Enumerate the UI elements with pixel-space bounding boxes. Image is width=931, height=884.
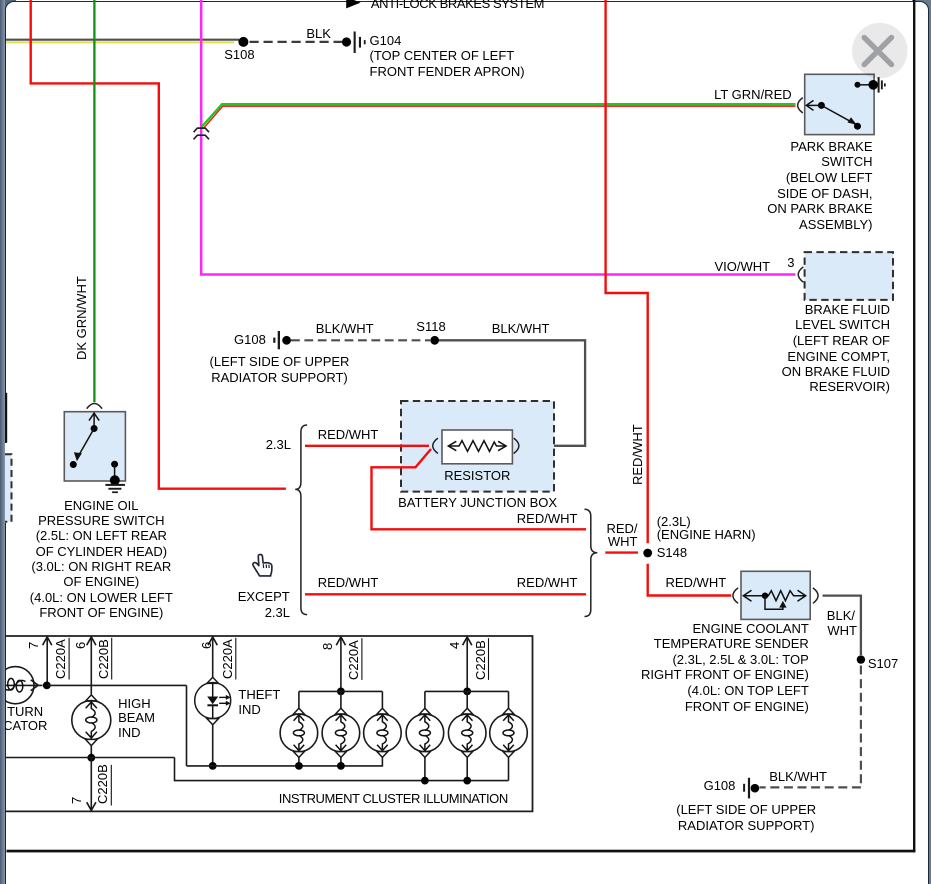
connector arc park brake <box>798 98 803 113</box>
splice S148 <box>643 549 652 558</box>
label brake fluid 3 <box>793 334 890 347</box>
park brake ground dot <box>868 80 878 90</box>
wire BLK/WHT dashed G108 to S118 <box>291 339 430 341</box>
wire pin6 to theft ind <box>212 637 214 677</box>
wire bulb1 to rail1 <box>298 757 300 766</box>
ground G108-bottom short bar <box>743 784 745 792</box>
instrument cluster box <box>6 636 533 811</box>
wire turn indicator to node <box>6 684 43 686</box>
bottom rail 0 from left edge <box>6 757 175 759</box>
label BLK/ stacked near S107 <box>827 609 855 622</box>
cut-off component edge at left <box>5 393 7 443</box>
close button <box>852 23 907 78</box>
wire GRY horizontal to S108 <box>6 39 239 41</box>
wire corner down to bottom rail 1 <box>186 685 188 766</box>
illumination bulb L2 <box>340 691 342 708</box>
ground G108-top short bar <box>273 338 275 343</box>
splice S108 <box>238 37 248 47</box>
wire LT GRN/RED diagonal from hop <box>202 104 796 127</box>
bottom rail step down <box>175 758 509 781</box>
park brake arrow left <box>806 100 813 110</box>
wire bulb2 to rail1 <box>340 757 342 766</box>
label RED/ stacked 2 <box>608 535 638 548</box>
connector label C220A theft <box>221 639 234 679</box>
ground dot G104 <box>342 37 351 46</box>
connector label underline <box>68 638 70 680</box>
engine oil switch arm diagonal with arrowhead <box>78 429 95 458</box>
wire BLK/WHT from coolant sender to S107 <box>823 596 861 655</box>
label BLK <box>306 27 331 40</box>
ground G bar1 park brake <box>878 77 880 93</box>
label park brake 2 <box>821 155 872 168</box>
diagram border bottom <box>7 850 916 853</box>
wire BLK dashed S108 to G104 <box>250 41 343 43</box>
label RED/WHT except right <box>517 576 578 589</box>
label VIO/WHT <box>715 260 771 273</box>
ground G bar2 park brake <box>881 80 883 89</box>
label battery junction box <box>328 495 628 511</box>
engine oil switch arm upper line <box>93 413 95 428</box>
coolant sender wiper dot <box>762 593 768 599</box>
label RED/WHT branch wire <box>517 512 578 525</box>
illumination bulb L1 <box>298 691 300 708</box>
wire pin6 to high beam bulb <box>90 637 92 695</box>
connector label underline <box>361 638 363 680</box>
label instrument cluster illumination <box>279 792 508 805</box>
connector arc resistor right <box>514 438 519 453</box>
white gap over left border above dashed fragment <box>5 443 8 523</box>
label G108 top location <box>130 354 430 385</box>
label brake fluid 2 <box>795 318 890 331</box>
label DK GRN/WHT (rotated) <box>75 276 88 360</box>
label LT GRN/RED <box>714 88 792 101</box>
label brake fluid 4 <box>787 350 890 363</box>
label park brake 6 <box>799 218 872 231</box>
resistor symbol: double arrow + zigzag <box>448 441 456 450</box>
label G104 location 2 <box>370 65 525 78</box>
connector triangle theft top <box>207 677 219 683</box>
wire bulb6 to rail2 end <box>508 757 510 780</box>
brace right group <box>585 509 598 616</box>
junction dot high beam bottom <box>87 754 95 762</box>
connector label C220B pin6 <box>97 639 110 679</box>
connector triangle high beam top <box>86 695 98 701</box>
label G104 <box>370 34 402 47</box>
pin label 4 <box>448 642 461 649</box>
label G108 top <box>234 333 266 346</box>
connector arc engine oil switch <box>87 404 102 409</box>
resistor box <box>442 430 512 464</box>
theft LED anode lead <box>212 683 214 696</box>
bottom rail 1 <box>187 757 383 766</box>
pin 7 arrow C220B bottom <box>87 802 96 810</box>
pin label 7 top <box>27 641 40 648</box>
label coolant 6 <box>685 700 809 713</box>
top rail group 2 <box>425 690 509 692</box>
wire bulb4 to rail2 <box>424 757 426 780</box>
anti-lock arrow (cut at top) <box>346 0 360 8</box>
page left strip <box>0 0 5 884</box>
illumination bulb L5 <box>466 691 468 708</box>
turn indicator filament loops <box>8 678 15 690</box>
brake fluid level switch box (dashed) <box>805 252 893 300</box>
label high beam 3 <box>118 726 140 739</box>
label WHT stacked near S107 <box>827 624 857 637</box>
label G108 bottom <box>704 779 736 792</box>
label S108 <box>224 48 254 61</box>
wire VIO/WHT vertical + horizontal to brake fluid switch <box>201 0 795 275</box>
wire BLK/WHT dashed horizontal to G108 <box>760 786 861 788</box>
high beam ind bulb <box>72 701 111 740</box>
theft LED cathode bar <box>207 704 218 706</box>
label RED/WHT 2.3L wire <box>318 428 379 441</box>
label coolant 5 <box>687 684 808 697</box>
junction dot bulb1 <box>295 762 303 770</box>
theft LED emission arrows <box>219 696 226 698</box>
pin 4 arrow C220B <box>463 637 472 645</box>
junction dot bulb5 <box>463 777 471 785</box>
wire LT GRN/RED red stripe <box>203 106 795 128</box>
label S107 <box>868 657 898 670</box>
label 2.3L <box>266 438 291 451</box>
wire pin4 riser <box>466 637 468 692</box>
top rail group 1 <box>299 690 383 692</box>
wire pin8 riser <box>340 637 342 692</box>
junction dot turn indicator <box>43 682 51 690</box>
ground G104 short bar <box>359 37 361 48</box>
diagram border right <box>913 0 915 852</box>
engine oil switch ground big dot <box>110 475 120 485</box>
high beam filament <box>91 702 95 738</box>
pin 7 arrow C220A <box>43 637 52 645</box>
junction dot pin8 rail <box>337 688 345 696</box>
junction dot theft bottom <box>209 762 217 770</box>
turn indicator bulb <box>0 667 34 704</box>
wire RED/WHT 2.3L to resistor <box>305 445 429 447</box>
pin 6 arrow C220B <box>87 637 96 645</box>
pin label 8 <box>321 642 334 649</box>
label park brake 5 <box>767 202 872 215</box>
turn indicator arrow right <box>31 680 39 691</box>
high beam filament arrow bottom <box>86 732 97 738</box>
connector label C220A pin8 <box>347 640 360 680</box>
label RED/WHT except left <box>318 576 379 589</box>
label pin 3 <box>787 256 794 269</box>
connector label underline <box>110 765 112 806</box>
label EXCEPT <box>238 590 290 603</box>
connector label C220B bottom <box>96 764 109 804</box>
ground bar 3 engine oil <box>112 491 118 493</box>
wire RED below S148 to coolant sender <box>648 564 732 596</box>
illumination bulb L6 <box>508 691 510 708</box>
connector arc coolant right <box>813 588 818 603</box>
pin label 6 high beam <box>74 642 87 649</box>
connector arc coolant left <box>733 588 738 603</box>
mouse cursor hand <box>253 554 272 576</box>
engine oil switch arm arrow up <box>89 413 99 420</box>
splice S107 <box>857 655 865 663</box>
park brake lower contact dot <box>854 123 861 130</box>
label RED/ stacked 1 <box>606 522 637 535</box>
wire DK GRN/WHT vertical <box>93 0 95 402</box>
label (2.3L) <box>657 515 691 528</box>
ground dot G108-bottom <box>751 784 760 793</box>
ground bar 2 engine oil <box>108 488 121 490</box>
illumination bulb L4 <box>424 691 426 708</box>
ground bar 1 engine oil <box>105 484 125 486</box>
ground dot G108-top <box>282 336 291 345</box>
cut-off dashed component at left edge <box>0 454 12 522</box>
ground G104 tiny bar <box>364 40 366 44</box>
label turn indicator 2 <box>0 719 47 732</box>
pin label 6 theft <box>200 642 213 649</box>
wire crossover hop mark 1 <box>194 128 209 132</box>
connector label C220A pin7 <box>54 639 67 679</box>
wire RED/WHT except-2.3L <box>305 593 586 595</box>
label high beam 2 <box>118 711 155 724</box>
theft ind LED bulb <box>195 683 231 719</box>
wire RED left: top vertical + jog right + long vertical + horizontal to brace <box>31 0 286 489</box>
label S148 <box>657 546 687 559</box>
label coolant 4 <box>641 668 809 681</box>
label brake fluid 1 <box>805 303 890 316</box>
wire high beam to bottom rail <box>90 746 92 758</box>
illumination bulb L3 <box>381 691 383 708</box>
wire node to right corner <box>47 684 187 686</box>
label S118 <box>416 320 445 333</box>
page corner background patches <box>0 0 16 13</box>
label RED/WHT rotated right wire <box>631 425 644 486</box>
label anti-lock brakes system <box>371 0 544 10</box>
ground G bar3 park brake <box>884 83 886 86</box>
label brake fluid 5 <box>782 365 890 378</box>
ground G104 tall bar <box>354 32 356 54</box>
label park brake 1 <box>790 140 872 153</box>
page right strip <box>929 0 931 884</box>
wire RED/WHT short lead to S148 <box>605 551 638 553</box>
pin 6 arrow C220A theft <box>208 637 217 645</box>
label theft 2 <box>238 703 260 716</box>
brace left group <box>295 425 307 615</box>
splice S118 <box>430 336 439 345</box>
label G108 bottom location <box>596 802 896 833</box>
connector label C220B pin4 <box>474 640 487 680</box>
engine oil switch ground lead <box>114 464 116 478</box>
engine oil switch right contact dot <box>111 461 118 468</box>
label theft 1 <box>238 688 280 701</box>
label turn indicator 1 <box>0 705 43 718</box>
label park brake 4 <box>777 187 872 200</box>
wire BLK/WHT solid S118 to resistor <box>439 340 585 446</box>
wire crossover hop mark 2 <box>194 135 209 139</box>
engine oil pressure switch box <box>64 412 125 481</box>
park brake switch box <box>805 74 874 134</box>
connector arc brake fluid pin 3 <box>798 267 803 282</box>
connector label underline <box>488 638 490 680</box>
connector triangle theft bottom <box>207 719 219 725</box>
label BLK/WHT right <box>492 322 550 335</box>
pin 8 arrow C220A <box>336 637 345 645</box>
wire RED/WHT branch from resistor down-left and to right <box>372 449 587 529</box>
wire pin7 bottom from high beam node down <box>90 758 92 810</box>
label RESISTOR <box>327 468 627 484</box>
label engine oil switch <box>0 498 251 620</box>
connector arc resistor left <box>433 438 438 453</box>
wire pin7 to turn indicator node <box>46 637 48 686</box>
label G104 location 1 <box>370 49 515 62</box>
battery junction box (dashed) <box>401 401 554 492</box>
junction dot pin4 rail <box>463 688 471 696</box>
junction dot bulb2 <box>337 762 345 770</box>
wire YEL stripe to S108 <box>6 41 234 43</box>
high beam filament arrow top <box>86 702 97 708</box>
wire theft to bottom rail 1 <box>212 725 214 766</box>
park brake arm dot <box>818 102 825 109</box>
label (ENGINE HARN) <box>657 528 756 541</box>
ground G108-top tall bar <box>278 331 280 349</box>
connector triangle high beam bottom <box>86 739 98 745</box>
park brake upper small dot <box>855 82 861 88</box>
label coolant 3 <box>672 653 808 666</box>
label high beam 1 <box>118 697 151 710</box>
wire RED right: vertical from top, jog, down to S148 <box>606 0 648 543</box>
ground G108-bottom tall bar <box>748 778 750 799</box>
engine oil switch upper contact dot <box>91 425 98 432</box>
connector label underline <box>235 638 237 680</box>
coolant sender symbol: double arrow, zigzag, wiper <box>743 590 751 601</box>
wire bulb5 to rail2 <box>466 757 468 780</box>
label coolant 2 <box>654 637 809 650</box>
park brake arm line left <box>808 104 822 106</box>
label coolant 1 <box>693 622 809 635</box>
junction dot bulb4 <box>421 777 429 785</box>
connector label underline <box>111 638 113 680</box>
engine oil switch lower contact dot <box>70 461 77 468</box>
park brake lead to ground <box>858 84 872 86</box>
park brake arm diagonal with arrowhead <box>821 105 855 124</box>
label BLK/WHT left <box>316 322 374 335</box>
engine coolant temp sender box <box>741 571 810 619</box>
theft LED cathode lead <box>212 705 214 719</box>
label BLK/WHT bottom <box>769 770 827 783</box>
label except 2.3L <box>265 606 290 619</box>
label brake fluid 6 <box>809 380 890 393</box>
wire BLK/WHT dashed S107 down to G108 <box>860 666 862 788</box>
pin label 7 bottom <box>70 797 83 804</box>
label park brake 3 <box>786 171 873 184</box>
label RED/WHT to coolant <box>666 576 727 589</box>
